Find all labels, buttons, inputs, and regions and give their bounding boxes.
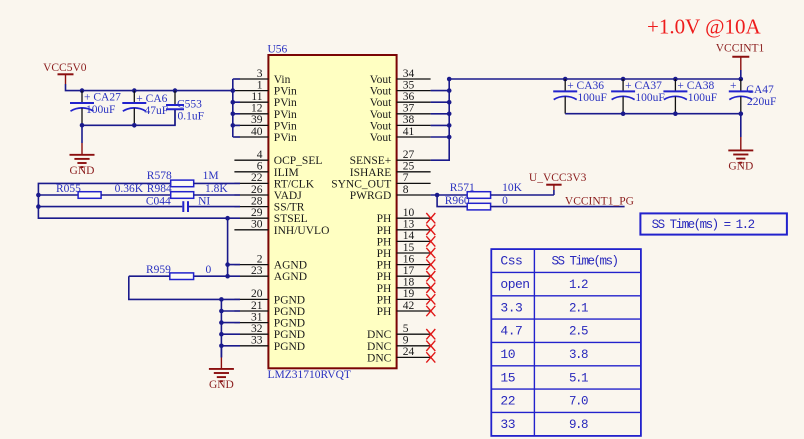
svg-text:U56: U56 (268, 44, 288, 56)
svg-text:25: 25 (403, 161, 415, 173)
svg-text:DNC: DNC (367, 352, 392, 364)
svg-text:30: 30 (251, 219, 263, 231)
no-connect X on pin row 15 (426, 248, 435, 258)
svg-text:9: 9 (403, 335, 409, 347)
svg-text:PVin: PVin (274, 86, 297, 98)
svg-text:PGND: PGND (274, 294, 305, 306)
svg-text:+ CA38: + CA38 (677, 80, 714, 92)
svg-text:R959: R959 (146, 264, 171, 276)
pin 14 PH (right) (377, 230, 431, 248)
junction dots PGND bus (219, 297, 224, 348)
wire AGND rail (228, 218, 240, 276)
svg-text:100uF: 100uF (578, 92, 607, 104)
junction dots output bottom rail (621, 111, 743, 116)
wire to input GND (81, 125, 83, 155)
pin 11 PVin (left) (234, 91, 297, 109)
pin 28 SS/TR (left) (234, 195, 304, 213)
svg-text:+ CA36: + CA36 (567, 80, 604, 92)
pin 26 VADJ (left) (234, 184, 302, 202)
svg-text:24: 24 (403, 346, 415, 358)
svg-text:R571: R571 (450, 182, 475, 194)
svg-text:220uF: 220uF (747, 96, 776, 108)
svg-text:21: 21 (251, 300, 263, 312)
ground GND (output) (728, 150, 753, 172)
svg-text:Vout: Vout (370, 97, 392, 109)
no-connect X on pin row 20 (426, 306, 435, 316)
svg-text:PGND: PGND (274, 329, 305, 341)
wire RT/CLK row to left rail (38, 183, 240, 218)
svg-text:PVin: PVin (274, 97, 297, 109)
junction dots AGND rail (225, 262, 230, 278)
capacitor CA47 220uF (729, 79, 777, 114)
svg-text:0: 0 (206, 264, 212, 276)
pin 25 ISHARE (right) (350, 161, 431, 179)
svg-text:R578: R578 (147, 170, 172, 182)
designator U56 (268, 44, 288, 56)
capacitor C044 NI (38, 195, 240, 212)
svg-text:PH: PH (377, 236, 392, 248)
junction dots Vout rail (563, 77, 743, 82)
no-connect X on pin row 14 (426, 236, 435, 246)
capacitor CA37 100uF (611, 79, 665, 114)
wire input caps bottom rail (82, 110, 175, 125)
svg-text:PGND: PGND (274, 306, 305, 318)
svg-text:16: 16 (403, 253, 415, 265)
svg-text:3: 3 (257, 68, 263, 80)
svg-text:PH: PH (377, 283, 392, 295)
svg-text:PVin: PVin (274, 120, 297, 132)
svg-text:4.7: 4.7 (500, 324, 522, 339)
pin 39 PVin (left) (234, 114, 297, 132)
svg-text:20: 20 (251, 288, 263, 300)
svg-text:6: 6 (257, 161, 263, 173)
svg-text:5: 5 (403, 323, 409, 335)
svg-text:PH: PH (377, 225, 392, 237)
pin 23 AGND (left) (234, 265, 307, 283)
svg-text:0.36K: 0.36K (115, 183, 144, 195)
no-connect X on pin row 22 (426, 329, 435, 339)
svg-text:14: 14 (403, 230, 415, 242)
Css / SS Time table (491, 249, 641, 436)
label +1.0V @10A (647, 15, 761, 39)
svg-text:18: 18 (403, 277, 415, 289)
svg-text:SS Time(ms) = 1.2: SS Time(ms) = 1.2 (652, 218, 755, 232)
wire PWRGD to R960 (437, 195, 467, 207)
svg-text:+: + (730, 80, 737, 92)
svg-text:Vin: Vin (274, 74, 291, 86)
wire PGND bus (221, 299, 240, 357)
wire VCC5V0 to input bus (66, 84, 233, 91)
pin 19 PH (right) (377, 288, 431, 306)
pin 34 Vout (right) (370, 68, 431, 86)
svg-text:4: 4 (257, 149, 263, 161)
svg-text:ILIM: ILIM (274, 167, 299, 179)
pin 20 PGND (left) (234, 288, 305, 306)
svg-text:13: 13 (403, 219, 415, 231)
svg-text:2.5: 2.5 (569, 325, 588, 339)
wire PWRGD junction (431, 194, 468, 196)
svg-text:R055: R055 (56, 183, 81, 195)
svg-text:22: 22 (500, 394, 515, 409)
pin 2 AGND (left) (234, 253, 307, 271)
no-connect X on pin row 17 (426, 271, 435, 281)
svg-text:2: 2 (257, 253, 263, 265)
svg-text:26: 26 (251, 184, 263, 196)
svg-text:PH: PH (377, 260, 392, 272)
resistor R984 1.8K (147, 183, 240, 199)
svg-text:Css: Css (500, 254, 522, 269)
pin 30 INH/UVLO (left) (234, 219, 329, 237)
pin 36 Vout (right) (370, 91, 431, 109)
capacitor CA38 100uF (663, 79, 717, 114)
wire left input bus (233, 79, 240, 137)
svg-text:2.1: 2.1 (569, 301, 588, 315)
svg-text:31: 31 (251, 311, 263, 323)
power VCC5V0 (43, 62, 87, 84)
svg-text:100uF: 100uF (635, 92, 664, 104)
svg-text:SS Time(ms): SS Time(ms) (551, 255, 617, 269)
svg-text:ISHARE: ISHARE (350, 167, 392, 179)
resistor R960 0 (445, 195, 625, 210)
svg-text:15: 15 (403, 242, 415, 254)
wire to output GND (740, 114, 742, 151)
pin 41 Vout (right) (370, 126, 431, 144)
svg-text:Vout: Vout (370, 109, 392, 121)
svg-text:34: 34 (403, 68, 415, 80)
pin 5 DNC (right) (367, 323, 431, 341)
svg-text:38: 38 (403, 114, 415, 126)
svg-text:1M: 1M (203, 170, 219, 182)
svg-text:LMZ31710RVQT: LMZ31710RVQT (268, 369, 351, 381)
no-connect X on pin row 13 (426, 225, 435, 235)
pin 33 PGND (left) (234, 335, 305, 353)
pin 24 DNC (right) (367, 346, 431, 364)
svg-text:40: 40 (251, 126, 263, 138)
svg-text:33: 33 (251, 335, 263, 347)
no-connect X on pin row 12 (426, 213, 435, 223)
junction dot PWRGD (435, 193, 440, 198)
svg-text:PH: PH (377, 271, 392, 283)
capacitor CA27 100uF (70, 91, 121, 126)
svg-text:22: 22 (251, 172, 263, 184)
pin 4 OCP_SEL (left) (234, 149, 322, 167)
svg-text:AGND: AGND (274, 260, 307, 272)
pin 21 PGND (left) (234, 300, 305, 318)
pin 16 PH (right) (377, 253, 431, 271)
svg-text:19: 19 (403, 288, 415, 300)
pin 6 ILIM (left) (234, 161, 298, 179)
wire PGND bus to GND (220, 346, 222, 369)
svg-text:10: 10 (403, 207, 415, 219)
net label VCCINT1_PG (565, 196, 634, 208)
svg-text:PH: PH (377, 294, 392, 306)
wire Vout rail to VCCINT1 (449, 78, 741, 80)
svg-text:VCCINT1_PG: VCCINT1_PG (565, 196, 634, 208)
svg-text:SYNC_OUT: SYNC_OUT (331, 178, 391, 190)
no-connect X on pin row 16 (426, 259, 435, 269)
svg-text:23: 23 (251, 265, 263, 277)
svg-text:INH/UVLO: INH/UVLO (274, 225, 330, 237)
svg-text:100uF: 100uF (86, 104, 115, 116)
svg-text:28: 28 (251, 195, 263, 207)
svg-text:PH: PH (377, 213, 392, 225)
junction dots bottom rail (80, 123, 137, 128)
pin 35 Vout (right) (370, 79, 431, 97)
junction dots output bus (447, 77, 452, 140)
svg-text:GND: GND (728, 161, 753, 173)
power VCCINT1 (716, 43, 765, 80)
svg-text:3.8: 3.8 (569, 348, 588, 362)
svg-text:STSEL: STSEL (274, 213, 308, 225)
svg-text:32: 32 (251, 323, 263, 335)
wire output bus (Vout to SENSE+) (431, 79, 450, 160)
svg-text:29: 29 (251, 207, 263, 219)
svg-text:11: 11 (251, 91, 262, 103)
svg-text:5.1: 5.1 (569, 371, 588, 385)
pin 3 Vin (left) (234, 68, 290, 86)
svg-text:DNC: DNC (367, 329, 392, 341)
svg-text:DNC: DNC (367, 341, 392, 353)
capacitor CA6 47uF (122, 91, 168, 126)
pin 17 PH (right) (377, 265, 431, 283)
svg-text:1.8K: 1.8K (205, 183, 228, 195)
wire output caps bottom rail (565, 113, 741, 115)
pin 40 PVin (left) (234, 126, 297, 144)
svg-text:39: 39 (251, 114, 263, 126)
svg-text:VCC5V0: VCC5V0 (43, 62, 87, 74)
no-connect X on pin row 18 (426, 283, 435, 293)
pin 31 PGND (left) (234, 311, 305, 329)
svg-text:Vout: Vout (370, 120, 392, 132)
svg-text:OCP_SEL: OCP_SEL (274, 155, 323, 167)
pin 1 PVin (left) (234, 79, 297, 97)
svg-text:+ CA37: + CA37 (625, 80, 662, 92)
svg-text:9.8: 9.8 (569, 418, 588, 432)
pin 13 PH (right) (377, 219, 431, 237)
svg-text:8: 8 (403, 184, 409, 196)
svg-text:PH: PH (377, 248, 392, 260)
svg-text:1: 1 (257, 79, 263, 91)
svg-text:0.1uF: 0.1uF (178, 111, 205, 123)
no-connect X on pin row 23 (426, 341, 435, 351)
svg-text:PGND: PGND (274, 318, 305, 330)
junction dots left rail (36, 193, 230, 221)
op-amp U56 body LMZ31710RVQT (268, 55, 396, 368)
ground GND (input caps) (70, 155, 95, 177)
pin 27 SENSE+ (right) (350, 149, 431, 167)
svg-text:PWRGD: PWRGD (350, 190, 392, 202)
svg-text:SS/TR: SS/TR (274, 202, 305, 214)
svg-text:27: 27 (403, 149, 415, 161)
resistor R055 0.36K (38, 183, 170, 199)
svg-text:10K: 10K (502, 182, 522, 194)
pin 7 SYNC_OUT (right) (331, 172, 430, 190)
pin 10 PH (right) (377, 207, 431, 225)
svg-text:17: 17 (403, 265, 415, 277)
svg-text:Vout: Vout (370, 86, 392, 98)
no-connect X on pin row 24 (426, 352, 435, 362)
svg-text:SENSE+: SENSE+ (350, 155, 392, 167)
svg-text:PVin: PVin (274, 109, 297, 121)
svg-text:VADJ: VADJ (274, 190, 302, 202)
svg-text:7.0: 7.0 (569, 395, 588, 409)
svg-text:R984: R984 (147, 183, 172, 195)
svg-text:7: 7 (403, 172, 409, 184)
svg-text:PH: PH (377, 306, 392, 318)
resistor R578 1M (147, 170, 240, 187)
capacitor C553 0.1uF (166, 91, 204, 126)
svg-text:0: 0 (502, 195, 508, 207)
svg-text:15: 15 (500, 370, 515, 385)
svg-text:R960: R960 (445, 195, 470, 207)
svg-text:AGND: AGND (274, 271, 307, 283)
svg-text:3.3: 3.3 (500, 300, 522, 315)
svg-text:37: 37 (403, 103, 415, 115)
svg-text:1.2: 1.2 (569, 278, 588, 292)
svg-text:PGND: PGND (274, 341, 305, 353)
svg-text:GND: GND (70, 165, 95, 177)
svg-text:41: 41 (403, 126, 415, 138)
SS Time annotation box (640, 213, 787, 234)
svg-text:NI: NI (198, 195, 210, 207)
pin 22 RT/CLK (left) (234, 172, 314, 190)
svg-text:RT/CLK: RT/CLK (274, 178, 315, 190)
svg-text:35: 35 (403, 79, 415, 91)
svg-text:10: 10 (500, 347, 515, 362)
wire R959 to PGND bus (129, 276, 222, 299)
pin 8 PWRGD (right) (350, 184, 431, 202)
pin 18 PH (right) (377, 277, 431, 295)
svg-text:Vout: Vout (370, 74, 392, 86)
capacitor CA36 100uF (553, 79, 607, 114)
ground GND (PGND) (209, 369, 234, 391)
svg-text:CA47: CA47 (746, 84, 774, 96)
svg-text:open: open (500, 277, 529, 292)
resistor R571 10K (450, 182, 554, 198)
pin 9 DNC (right) (367, 335, 431, 353)
pin 29 STSEL (left) (234, 207, 307, 225)
svg-text:33: 33 (500, 417, 515, 432)
junction dots on VCC wire (80, 88, 235, 127)
pin 37 Vout (right) (370, 103, 431, 121)
svg-text:VCCINT1: VCCINT1 (716, 43, 765, 55)
pin 15 PH (right) (377, 242, 431, 260)
value label LMZ31710RVQT (268, 369, 351, 381)
svg-text:C553: C553 (177, 99, 202, 111)
svg-text:42: 42 (403, 300, 415, 312)
svg-text:GND: GND (209, 379, 234, 391)
pin 32 PGND (left) (234, 323, 305, 341)
pin 42 PH (right) (377, 300, 431, 318)
svg-text:36: 36 (403, 91, 415, 103)
svg-text:U_VCC3V3: U_VCC3V3 (529, 172, 587, 184)
svg-text:+1.0V @10A: +1.0V @10A (647, 15, 761, 39)
svg-text:47uF: 47uF (145, 105, 169, 117)
svg-text:Vout: Vout (370, 132, 392, 144)
pin 12 PVin (left) (234, 103, 297, 121)
no-connect X on pin row 19 (426, 294, 435, 304)
svg-text:PVin: PVin (274, 132, 297, 144)
pin 38 Vout (right) (370, 114, 431, 132)
svg-text:100uF: 100uF (688, 92, 717, 104)
svg-text:+ CA27: + CA27 (84, 92, 121, 104)
svg-text:C044: C044 (146, 195, 171, 207)
svg-text:+ CA6: + CA6 (136, 93, 167, 105)
power U_VCC3V3 (529, 172, 587, 195)
svg-text:12: 12 (251, 103, 263, 115)
resistor R959 0 (129, 264, 228, 280)
